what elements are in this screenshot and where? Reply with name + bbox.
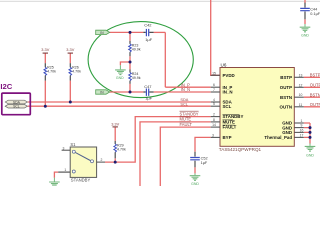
resistor R29	[114, 141, 126, 158]
svg-text:C44: C44	[310, 8, 317, 12]
wire R29 top from 3.3V	[114, 127, 116, 141]
switch pin 2 stub	[97, 161, 105, 163]
svg-text:1µF: 1µF	[145, 96, 153, 101]
wire R25 pullup column	[44, 53, 46, 106]
svg-text:PVDD: PVDD	[223, 73, 235, 78]
wire SDA bus	[28, 101, 211, 103]
svg-text:SCL: SCL	[223, 104, 232, 109]
svg-text:4.70k: 4.70k	[47, 70, 56, 74]
node GND pin9	[309, 126, 312, 129]
svg-text:3: 3	[63, 146, 65, 150]
svg-text:GND: GND	[116, 76, 124, 80]
svg-text:U6: U6	[221, 63, 227, 68]
svg-text:14: 14	[212, 123, 216, 127]
svg-text:6: 6	[213, 83, 215, 87]
capacitor C52	[190, 152, 208, 167]
capacitor C47	[143, 84, 153, 101]
svg-text:1: 1	[64, 168, 66, 172]
wire C42 to corner	[154, 31, 166, 33]
pin 3 stub BYP	[211, 136, 220, 138]
svg-text:BSTP: BSTP	[310, 72, 320, 77]
svg-text:IN_N: IN_N	[181, 87, 190, 92]
node IN_P/C42/R23	[129, 31, 132, 34]
overline STANDBY pin name	[223, 114, 240, 116]
svg-text:OUTP: OUTP	[280, 85, 292, 90]
node R23/R24/GND	[129, 61, 132, 64]
wire IN_P into IC	[165, 86, 210, 88]
svg-text:13: 13	[299, 73, 303, 77]
svg-text:GND: GND	[306, 154, 314, 158]
svg-text:2: 2	[213, 113, 215, 117]
port SCL (cream)	[5, 104, 27, 108]
resistor R24	[129, 69, 141, 83]
ground symbol (switch pin1)	[49, 178, 60, 185]
wire OUTN out	[304, 106, 320, 108]
wire BSTP out	[304, 76, 320, 78]
wire R29 bottom to STANDBY	[114, 158, 116, 162]
power port 3.3V (R25)	[41, 47, 49, 53]
svg-text:GND: GND	[301, 34, 309, 38]
power port 3.3V (R26)	[66, 47, 74, 53]
pin 2 stub STANDBY	[211, 116, 220, 118]
svg-text:15: 15	[212, 71, 216, 75]
wire OUTP out	[304, 86, 320, 88]
wire C52 to GND	[194, 167, 196, 173]
I2C harness box (purple)	[2, 93, 31, 115]
svg-text:SCL: SCL	[13, 105, 20, 109]
wire BYP to C52	[195, 137, 211, 151]
power port 3.3V (R29)	[111, 122, 119, 127]
port INN (green)	[96, 90, 110, 95]
overline MUTE pin name	[223, 119, 234, 121]
svg-text:STANDBY: STANDBY	[71, 177, 91, 182]
svg-text:12: 12	[299, 83, 303, 87]
svg-text:3.3V: 3.3V	[66, 47, 74, 52]
svg-text:17: 17	[300, 133, 304, 137]
svg-text:GND: GND	[191, 182, 199, 186]
wire vertical to IN_P	[164, 32, 166, 87]
IC U6 body	[220, 68, 294, 147]
svg-text:STANDBY: STANDBY	[223, 114, 244, 119]
svg-text:MUTE: MUTE	[180, 117, 192, 122]
svg-text:4.70k: 4.70k	[72, 70, 81, 74]
svg-text:16: 16	[300, 128, 304, 132]
svg-text:IN_N: IN_N	[223, 90, 233, 95]
pin 5 stub SCL	[211, 105, 220, 107]
port SDA (cream)	[5, 100, 27, 104]
overline FAULT pin name	[223, 124, 235, 126]
wire GND pins bus right	[304, 123, 310, 144]
switch pin 1 stub	[58, 171, 70, 173]
wire R23 bottom to mid node	[129, 56, 131, 69]
node GND pin16	[309, 131, 312, 134]
highlight ellipse	[88, 22, 193, 98]
wire PVDD vertical	[211, 0, 220, 75]
switch pin 3 stub	[62, 149, 71, 151]
svg-text:S1: S1	[70, 142, 76, 147]
wire FAULT net	[160, 127, 210, 186]
pin 6 stub IN_P	[211, 86, 220, 88]
wire MUTE net	[140, 122, 211, 186]
pin 15 stub PVDD	[211, 74, 220, 76]
node SCL/R25	[44, 105, 47, 108]
svg-text:49.9k: 49.9k	[132, 76, 141, 80]
pin 7 stub IN_N	[211, 91, 220, 93]
capacitor C44	[300, 3, 320, 20]
pin 8 stub MUTE	[211, 121, 220, 123]
wire SCL bus	[28, 105, 211, 107]
svg-text:10: 10	[299, 93, 303, 97]
ground symbol (C52)	[190, 173, 201, 186]
resistor R26	[69, 63, 81, 80]
pin 11 stub OUTN	[294, 106, 304, 108]
wire C44 to GND	[304, 19, 306, 24]
svg-text:FAULT: FAULT	[180, 122, 193, 127]
pin 14 stub FAULT	[211, 126, 220, 128]
svg-text:1µF: 1µF	[201, 161, 208, 165]
svg-text:C42: C42	[144, 22, 152, 27]
svg-text:OUTN: OUTN	[280, 105, 292, 110]
ground symbol (IC GND pins)	[305, 144, 316, 158]
wire switch pin1 to GND	[54, 172, 58, 178]
pin 12 stub OUTP	[294, 86, 304, 88]
resistor R23	[129, 41, 141, 56]
switch S1 body	[70, 147, 96, 177]
svg-text:9: 9	[301, 124, 303, 128]
svg-text:FAULT: FAULT	[223, 125, 237, 130]
svg-text:Thermal_Pad: Thermal_Pad	[264, 135, 292, 140]
svg-text:0.1µF: 0.1µF	[310, 12, 320, 16]
wire IN_N port to C47	[110, 91, 144, 93]
pin 16 stub GND	[294, 131, 304, 133]
wire STANDBY net switch to IC	[105, 117, 211, 163]
svg-text:1: 1	[301, 119, 303, 123]
svg-text:BSTN: BSTN	[280, 95, 292, 100]
pin 9 stub GND	[294, 127, 304, 129]
wire IN_P top segment port to C42	[110, 31, 144, 33]
svg-text:3.3V: 3.3V	[41, 47, 49, 52]
svg-text:I2C: I2C	[0, 82, 12, 91]
wire R26 pullup column	[69, 53, 71, 102]
svg-text:C52: C52	[201, 156, 208, 160]
wire BSTN out	[304, 96, 320, 98]
node STANDBY/R29	[114, 161, 117, 164]
svg-text:11: 11	[299, 103, 303, 107]
pin 1 stub GND	[294, 122, 304, 124]
svg-text:TAS5421QPWPRQ1: TAS5421QPWPRQ1	[219, 147, 262, 152]
pin 4 stub SDA	[211, 101, 220, 103]
pin 17 stub Thermal_Pad	[294, 136, 304, 138]
node SDA/R26	[69, 101, 72, 104]
svg-text:1µF: 1µF	[145, 37, 153, 42]
svg-text:BYP: BYP	[223, 135, 232, 140]
svg-text:4.70k: 4.70k	[117, 148, 126, 152]
node IN_N/C47/R24	[129, 91, 132, 94]
svg-text:5: 5	[213, 102, 215, 106]
wire mid node GND tap	[120, 62, 130, 65]
port INP (green)	[96, 30, 110, 35]
svg-text:OUTN: OUTN	[310, 102, 320, 107]
svg-text:49.9k: 49.9k	[132, 47, 141, 51]
svg-text:2: 2	[100, 158, 102, 162]
node GND pin17	[309, 136, 312, 139]
svg-text:SCL: SCL	[180, 101, 188, 106]
wire C44 top	[304, 0, 306, 3]
svg-text:BSTN: BSTN	[310, 92, 320, 97]
svg-text:BSTP: BSTP	[280, 75, 292, 80]
svg-text:8: 8	[213, 118, 215, 122]
capacitor C42	[143, 22, 153, 42]
resistor R25	[44, 63, 56, 80]
ground symbol (R23/R24 node)	[115, 65, 126, 80]
pin 10 stub BSTN	[294, 96, 304, 98]
svg-text:3: 3	[212, 133, 214, 137]
wire R24 bottom	[129, 84, 131, 92]
ground symbol (C44)	[300, 24, 311, 38]
svg-text:3.3V: 3.3V	[111, 122, 119, 127]
svg-text:STANDBY: STANDBY	[180, 111, 199, 116]
svg-text:OUTP: OUTP	[310, 82, 320, 87]
wire C47 to IC pin IN_N	[154, 91, 211, 93]
pin 13 stub BSTP	[294, 76, 304, 78]
svg-text:7: 7	[213, 88, 215, 92]
switch contacts and lever	[72, 150, 93, 173]
svg-text:C47: C47	[144, 84, 152, 89]
wire R23 top	[129, 32, 131, 40]
